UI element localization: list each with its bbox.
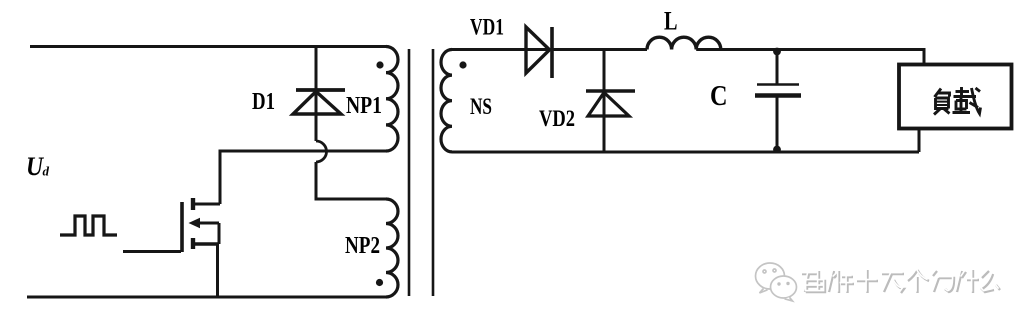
transformer core [409, 49, 433, 296]
inductor L [647, 37, 721, 49]
wire: load bottom to output bottom rail [918, 129, 921, 153]
svg-text:U: U [26, 152, 44, 181]
svg-text:D1: D1 [252, 89, 275, 115]
wire: VD1 cathode to inductor [552, 48, 647, 51]
wire: input bottom rail [27, 296, 386, 299]
watermark wechat logo [756, 263, 797, 301]
load box 负载 [899, 65, 1012, 129]
label VD2 [539, 106, 575, 131]
svg-text:C: C [710, 81, 728, 112]
junction node at capacitor bottom [773, 146, 781, 154]
polarity dot NS [459, 61, 466, 68]
svg-text:VD2: VD2 [539, 106, 575, 131]
wire: drain to NP1 bottom [220, 151, 386, 204]
transformer reset winding NP2 [386, 199, 398, 297]
svg-text:NP2: NP2 [345, 233, 380, 259]
label NS [470, 94, 492, 119]
transformer secondary winding NS [441, 50, 452, 152]
polarity dot NP1 [376, 61, 383, 68]
wire: NS top to VD1 anode [452, 48, 552, 51]
capacitor C [755, 50, 801, 153]
wire: secondary bottom rail [452, 151, 919, 154]
label D1 [252, 89, 275, 115]
transistor Q1 (N-MOSFET switch) [182, 198, 220, 252]
junction node at capacitor top [773, 48, 781, 56]
label C [710, 81, 728, 112]
svg-text:VD1: VD1 [470, 15, 504, 40]
wire: D1 anode to NP2 top [316, 162, 386, 199]
label NP1 [346, 93, 382, 119]
watermark text 硬件十万个为什么 (drawn strokes, embossed) [802, 270, 1000, 293]
label L [664, 7, 678, 36]
label 负载 (load) drawn strokes [934, 87, 981, 115]
gate drive pulse waveform symbol [60, 216, 117, 235]
wire: inductor to load top [696, 50, 924, 65]
wire: input top rail (+Ud to NP1 top) [30, 45, 386, 48]
svg-text:NP1: NP1 [346, 93, 382, 119]
wire: source/body down to bottom rail [218, 223, 220, 297]
svg-text:d: d [43, 164, 50, 179]
wire: crossover hop over drain wire [316, 141, 327, 162]
diode VD2 (freewheeling, cathode up) [586, 50, 635, 153]
wire: gate lead [123, 250, 181, 253]
diode VD1 (rectifier) [526, 27, 552, 78]
label Ud (input source voltage) [26, 152, 50, 181]
svg-text:NS: NS [470, 94, 492, 119]
diode D1 (reset clamp diode, cathode up) [293, 47, 345, 142]
label VD1 [470, 15, 504, 40]
watermark text white emboss overlay [801, 269, 999, 292]
label NP2 [345, 233, 380, 259]
polarity dot NP2 [376, 279, 383, 286]
svg-text:L: L [664, 7, 678, 36]
transformer primary winding NP1 [386, 47, 398, 151]
